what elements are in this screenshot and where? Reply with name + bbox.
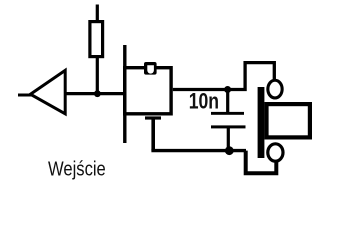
svg-text:Wejście: Wejście [48, 157, 106, 180]
svg-text:10n: 10n [189, 90, 219, 114]
